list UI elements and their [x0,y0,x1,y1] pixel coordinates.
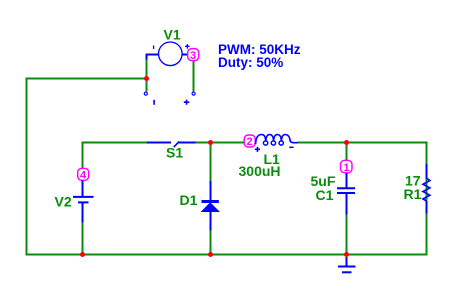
L1 coil loop b [271,141,275,145]
wire C1 branch lower [346,214,348,254]
svg-text:V2: V2 [55,194,72,210]
junction dot S1/D1/L1 [208,140,213,145]
svg-text:R1: R1 [404,186,422,202]
svg-text:4: 4 [80,170,87,182]
wire left vertical [26,78,28,256]
L1 minus mark [289,146,293,148]
gate terminal plus circle [192,92,195,95]
terminal minus mark [153,100,155,105]
switch S1 [147,142,171,144]
svg-text:C1: C1 [316,187,334,203]
wire middle rail V2 to S1 [83,143,149,169]
wire V2 branch lower [82,222,84,254]
wire V1 minus lead drop [146,58,148,92]
junction dot V2 bottom [80,252,85,257]
svg-text:2: 2 [247,136,253,148]
V1 plus mark [185,44,190,49]
node 3 [188,49,199,61]
svg-text:300uH: 300uH [239,163,281,179]
L1 coil loop a [263,141,267,145]
wire top horizontal from left corner to V1 drop [26,78,148,80]
terminal plus mark [184,100,190,105]
svg-text:3: 3 [190,50,196,62]
svg-text:V1: V1 [164,27,181,43]
L1 plus mark [255,147,260,152]
diode D1 [210,181,212,200]
capacitor C1 [346,173,348,188]
wire S1 to L1 [195,142,245,144]
node 2 [244,135,255,147]
wire D1 branch lower [210,230,212,254]
V1 minus mark [153,46,155,50]
wire D1 branch upper [210,142,212,182]
junction dot top [144,76,149,81]
junction dot D1 bottom [208,252,213,257]
node 4 [78,168,89,180]
inductor L1 [256,135,298,145]
svg-text:S1: S1 [166,145,183,161]
wire bottom rail [26,254,428,256]
junction dot C1 bottom [344,252,349,257]
svg-text:Duty: 50%: Duty: 50% [218,55,283,70]
svg-text:D1: D1 [180,192,198,208]
wire V1 plus lead drop from node 3 [193,60,195,92]
wire L1 to right corner [298,142,428,144]
L1 coil loop c [279,141,283,145]
ground [346,257,348,266]
gate terminal minus circle [144,92,147,95]
wire right vertical rail [426,142,428,256]
node 1 [341,160,353,173]
voltage source V1 [159,42,183,66]
svg-text:1: 1 [344,162,350,174]
dc source V2 battery [82,180,84,196]
resistor R1 [426,164,428,179]
wire C1 branch upper [346,142,348,162]
junction dot C1 top [344,140,349,145]
